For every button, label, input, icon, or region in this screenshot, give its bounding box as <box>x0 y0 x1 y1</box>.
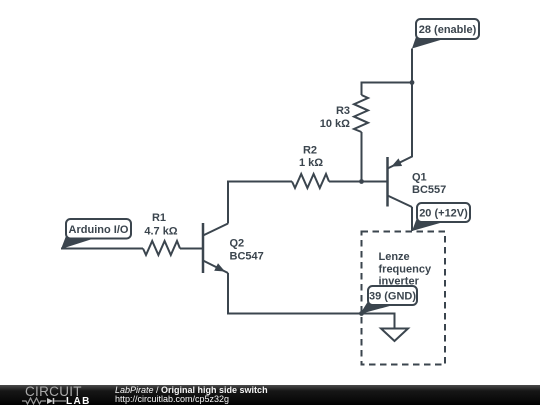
box Lenze frequency inverter <box>362 232 446 365</box>
logo LAB <box>66 397 91 405</box>
ground <box>381 329 408 342</box>
logo CIRCUIT <box>25 386 82 397</box>
transistor Q2 <box>203 223 264 273</box>
wire R2 to Q1 base <box>329 181 388 183</box>
resistor R3 <box>320 95 368 132</box>
flag 28 (enable) <box>412 19 479 49</box>
svg-text:Lenze: Lenze <box>379 251 410 263</box>
wire GND node to ground <box>362 314 395 329</box>
svg-text:frequency: frequency <box>379 263 432 275</box>
wire Q2 collector to R2 <box>228 182 292 224</box>
svg-text:BC557: BC557 <box>412 184 446 196</box>
svg-text:4.7 kΩ: 4.7 kΩ <box>144 226 177 238</box>
svg-text:R3: R3 <box>336 105 350 117</box>
svg-text:Q2: Q2 <box>230 238 245 250</box>
node junction R2/R3/Q1 base <box>359 179 364 184</box>
wire Q1 collector to box <box>411 207 413 231</box>
node junction GND net <box>359 311 364 316</box>
wire Q2 emitter to GND node <box>228 273 362 314</box>
footer title <box>115 386 268 395</box>
logo glyph <box>22 397 68 405</box>
svg-text:10 kΩ: 10 kΩ <box>320 118 350 130</box>
wire Arduino to R1 <box>61 248 143 250</box>
footer url <box>115 395 229 404</box>
svg-text:R2: R2 <box>303 145 317 157</box>
flag 39 (GND) <box>360 286 417 314</box>
flag 20 (+12V) <box>412 203 470 231</box>
svg-text:39 (GND): 39 (GND) <box>369 291 416 303</box>
transistor Q1 <box>388 157 447 207</box>
wire enable flag to Q1 emitter <box>388 49 413 169</box>
svg-text:28 (enable): 28 (enable) <box>419 24 477 36</box>
flag Arduino I/O <box>61 219 131 249</box>
node junction enable/R3 <box>410 80 415 85</box>
wire R1 to Q2 base <box>180 248 203 250</box>
resistor R1 <box>143 212 180 255</box>
wire R3 bottom to base junction <box>361 132 363 182</box>
svg-text:Q1: Q1 <box>412 172 427 184</box>
footer bar <box>0 385 540 405</box>
svg-text:1 kΩ: 1 kΩ <box>299 157 323 169</box>
resistor R2 <box>292 145 329 189</box>
wire R3 top to enable net <box>362 83 413 96</box>
svg-text:BC547: BC547 <box>230 251 264 263</box>
svg-text:Arduino I/O: Arduino I/O <box>69 224 129 236</box>
svg-text:20 (+12V): 20 (+12V) <box>419 208 468 220</box>
svg-text:R1: R1 <box>152 212 166 224</box>
